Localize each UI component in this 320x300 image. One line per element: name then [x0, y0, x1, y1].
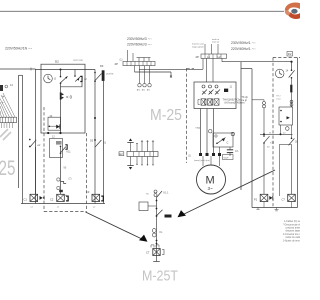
svg-text:marr gr: marr gr	[212, 41, 219, 44]
terminal strip X0	[0, 117, 17, 122]
wire phase bus to contactor	[139, 68, 203, 70]
label D2 right	[287, 52, 293, 57]
svg-text:K1.1: K1.1	[164, 192, 170, 195]
svg-text:< 0: < 0	[66, 95, 73, 100]
relay box K1	[50, 135, 72, 157]
node at 60.5,69.5	[60, 69, 62, 71]
svg-text:220V/60Hz/3 ∼◦: 220V/60Hz/3 ∼◦	[127, 43, 152, 47]
svg-text:1-Cables (C) segun el: 1-Cables (C) segun el	[284, 221, 300, 223]
wire bottom bus right	[252, 207, 298, 209]
contactor coil K2 right	[282, 194, 296, 201]
contactor coil C1	[24, 194, 45, 201]
svg-text:M-25: M-25	[150, 107, 182, 124]
node right feed	[290, 61, 292, 63]
dashed enclosure right	[273, 58, 300, 208]
wire top bus inside box	[36, 69, 96, 71]
switch T1 on left bus	[29, 139, 41, 148]
dashed enclosure left	[44, 107, 87, 212]
svg-text:(E): (E)	[137, 90, 140, 92]
M-25T pendant circuit	[139, 190, 172, 262]
switch K contact 1	[54, 70, 68, 84]
contact circles pendant	[152, 229, 156, 233]
wire L/N feed top-left	[0, 68, 36, 70]
crossbar right	[260, 133, 293, 135]
capacitor	[223, 147, 239, 160]
svg-text:t.mar: t.mar	[276, 97, 281, 100]
top border rule	[0, 10, 284, 12]
motor M	[197, 156, 226, 194]
arrow to M-25T from left	[86, 212, 148, 242]
contact circles right	[290, 100, 293, 103]
connector X1 (cropped at left)	[0, 83, 13, 103]
svg-text:negro gr/am: negro gr/am	[192, 46, 204, 49]
contact circles right 2	[263, 102, 266, 105]
svg-text:M: M	[206, 175, 215, 187]
contact in sub-box	[49, 124, 60, 128]
pe marks right	[256, 202, 291, 211]
earth stubs	[137, 69, 152, 91]
motor leads	[201, 109, 214, 154]
svg-text:230V/50Hz/3 ∼◦: 230V/50Hz/3 ∼◦	[127, 37, 152, 41]
wires mid left	[60, 147, 62, 195]
svg-text:K11: K11	[67, 151, 72, 154]
switch K contact 2	[74, 70, 87, 83]
lead ferrule	[209, 130, 212, 133]
svg-text:2P: 2P	[115, 62, 119, 66]
svg-text:DA: DA	[235, 150, 239, 153]
contactor coil C3	[86, 190, 104, 202]
switch right lower	[289, 138, 299, 146]
svg-text:nego: nego	[196, 127, 202, 130]
fuse bar right	[290, 85, 292, 93]
svg-text:2-Conectar los cables de: 2-Conectar los cables de	[283, 233, 300, 236]
wires strip 3ph top	[128, 50, 151, 61]
svg-text:(E): (E)	[142, 90, 145, 92]
wires strip 1ph down to contactor	[207, 58, 214, 82]
svg-text:C3: C3	[86, 190, 90, 194]
svg-text:C2: C2	[50, 198, 54, 202]
svg-text:(E): (E)	[147, 90, 150, 92]
aux box right	[279, 107, 293, 125]
svg-text:D3: D3	[100, 64, 104, 68]
underspeed device <0	[60, 92, 73, 100]
terminal ticks under coils	[31, 207, 97, 209]
wire neutral bus	[135, 71, 172, 73]
svg-text:3-Ajuste de termostato el: 3-Ajuste de termostato el	[283, 240, 300, 243]
svg-text:(ama) (azu) (ne): (ama) (azu) (ne)	[194, 160, 210, 162]
svg-text:D2: D2	[55, 60, 59, 64]
svg-text:C7: C7	[146, 251, 150, 255]
svg-text:220V/50Hz/1N ∼◦: 220V/50Hz/1N ∼◦	[5, 47, 33, 51]
indicator circle right	[286, 127, 290, 131]
indicator cluster D1	[57, 167, 72, 198]
box D2 (timer enclosure)	[41, 64, 85, 133]
wire door line	[103, 81, 105, 204]
svg-text:+12: +12	[270, 142, 275, 145]
wires strip 1ph top	[205, 44, 218, 54]
svg-text:230V/50Hz/1 ∼◦: 230V/50Hz/1 ∼◦	[231, 41, 256, 45]
svg-text:TH 2: TH 2	[276, 96, 282, 98]
svg-text:C7: C7	[282, 198, 286, 202]
timer clock right	[275, 69, 288, 78]
timer clock symbol	[44, 74, 53, 83]
switch pendant	[157, 210, 163, 216]
dashed enclosure middle	[187, 68, 195, 163]
door plug bar	[102, 70, 105, 81]
connector X2 top wires	[127, 138, 154, 151]
svg-text:C1: C1	[24, 198, 28, 202]
svg-text:C: C	[227, 141, 229, 145]
thermal elements	[198, 99, 219, 105]
svg-text:puerta: puerta	[106, 72, 114, 76]
svg-text:E2: E2	[120, 152, 124, 156]
motor terminals	[194, 147, 221, 162]
node	[94, 117, 96, 119]
svg-text:(1): (1)	[120, 59, 123, 62]
terminal strip 1ph	[196, 54, 227, 59]
svg-text:marron azul: marron azul	[192, 43, 204, 46]
wire main drop	[60, 83, 62, 92]
wire line feed to right block	[222, 61, 292, 63]
wire fan from strip X0	[0, 93, 15, 128]
svg-text:P1: P1	[254, 198, 258, 202]
svg-text:3~: 3~	[208, 186, 214, 191]
svg-text:2P: 2P	[196, 55, 200, 59]
left panel edge lines	[18, 75, 20, 188]
wire bottom bus left	[21, 203, 105, 205]
wire right drops	[263, 143, 265, 194]
svg-text:azul ne: azul ne	[212, 39, 220, 41]
aux contact block	[224, 89, 228, 92]
wire link sw2 to main	[61, 82, 83, 87]
connector X2 label	[119, 152, 124, 156]
switch right top	[289, 62, 295, 79]
right feed channel	[241, 62, 252, 208]
pendant box	[139, 202, 148, 211]
door switch column	[94, 64, 114, 204]
arrow to M-25T from right	[178, 170, 276, 217]
switch +12 right	[263, 135, 275, 144]
wire left vertical bus	[35, 69, 37, 204]
svg-text:(7): (7)	[69, 178, 72, 181]
contactor box K2	[194, 82, 236, 109]
svg-text:despues tapar los term: despues tapar los term	[286, 230, 301, 233]
connector X2 bottom wires	[127, 157, 153, 170]
watermark mark diagonal	[0, 129, 8, 137]
svg-text:D2: D2	[288, 52, 292, 56]
contactor coil K1 right	[254, 194, 273, 201]
svg-text:todos los cables term: todos los cables term	[286, 236, 301, 239]
coil pendant C7	[153, 249, 160, 256]
wire drop at x95	[94, 70, 96, 204]
logo (orange swirl, cut at right edge)	[285, 2, 300, 19]
svg-text:220V/60Hz/1 ∼◦: 220V/60Hz/1 ∼◦	[231, 47, 256, 51]
wire right aux	[263, 108, 265, 134]
svg-text:M-25T: M-25T	[142, 269, 178, 285]
wire strip1ph to N bus	[202, 58, 204, 69]
contactor coil C2	[50, 194, 69, 201]
relay sub-box	[48, 117, 61, 130]
svg-text:mini rele: mini rele	[73, 58, 83, 62]
svg-text:25: 25	[0, 157, 16, 180]
notes block	[283, 221, 310, 243]
node	[59, 132, 61, 134]
wire	[60, 100, 62, 133]
contactor poles	[202, 85, 220, 95]
door switch D3	[94, 72, 96, 74]
svg-text:(1): (1)	[188, 154, 191, 158]
svg-text:50uF: 50uF	[224, 157, 230, 159]
svg-text:conjunto antes de las: conjunto antes de las	[286, 227, 301, 230]
switch on door line	[90, 139, 107, 147]
wires strip 3ph bottom	[135, 66, 150, 72]
svg-text:*-Desconectar el conjunto: *-Desconectar el conjunto	[283, 223, 300, 226]
centrifugal switch box	[213, 133, 233, 147]
terminal strip 3ph	[115, 61, 156, 66]
connector X2 strip	[127, 152, 158, 157]
svg-text:ne gr: ne gr	[242, 99, 248, 102]
